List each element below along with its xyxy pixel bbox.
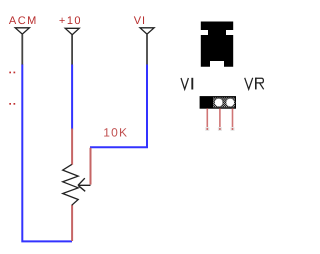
hidden label dots pair 1 bbox=[9, 72, 15, 74]
wire +10 down bbox=[71, 65, 73, 130]
terminal VI pin bbox=[146, 35, 148, 66]
svg-text:+10: +10 bbox=[59, 15, 82, 27]
trimmer pin 1 bbox=[206, 108, 208, 127]
trimmer pin 1 end marker bbox=[205, 127, 209, 131]
pin label VI bbox=[181, 78, 192, 90]
hidden label dots pair 2 bbox=[9, 103, 15, 105]
input terminal ACM symbol bbox=[15, 28, 29, 34]
terminal +10 pin bbox=[71, 35, 73, 65]
resistor VR1 bottom lead (red) bbox=[71, 205, 73, 241]
trimmer package icon (top view) bbox=[201, 22, 233, 67]
svg-text:10K: 10K bbox=[103, 125, 128, 139]
wire ACM down and bottom to resistor bbox=[22, 65, 72, 242]
pin label VR bbox=[245, 78, 264, 90]
svg-text:ACM: ACM bbox=[9, 15, 38, 27]
wiper lead from VI net (red) bbox=[90, 148, 92, 185]
trimmer pin 2 bbox=[219, 108, 221, 127]
wire VI down and left bbox=[90, 65, 147, 148]
svg-text:VI: VI bbox=[134, 15, 146, 27]
resistor VR1 top lead (red) bbox=[71, 129, 73, 165]
trimmer pin 3 bbox=[232, 108, 234, 127]
trimmer pin 3 end marker bbox=[231, 127, 235, 131]
terminal ACM pin bbox=[21, 35, 23, 66]
input terminal VI symbol bbox=[140, 28, 154, 34]
potentiometer VR1 zigzag bbox=[63, 164, 78, 205]
input terminal +10 symbol bbox=[65, 28, 79, 34]
trimmer component body bbox=[200, 97, 235, 108]
trimmer pin 2 end marker bbox=[218, 127, 222, 131]
potentiometer VR1 wiper arrow bbox=[78, 178, 91, 191]
